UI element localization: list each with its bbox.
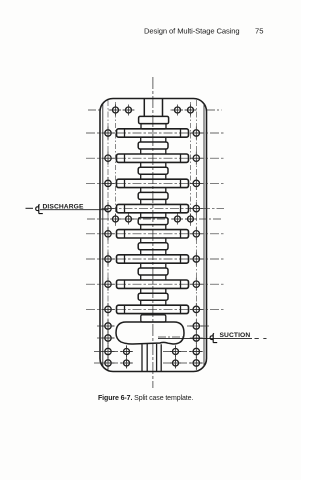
stage row 1 centerline [86,132,224,134]
casing bolt left row y=234 [102,227,115,240]
stage row 7 centerline [86,283,224,285]
inner stud column centerline left [115,102,117,227]
casing bolt right row y=259 [190,253,203,266]
right inner casing line [203,103,205,367]
shaft lines below suction eye [142,344,161,371]
stage row 8 centerline [86,308,224,310]
shaft vertical centerline [152,77,154,388]
casing bolt left row y=133 [102,127,115,140]
casing bolt left row y=326 [102,320,115,333]
left bolt column centerline [107,100,109,370]
casing bolt right row y=209 [190,202,203,215]
casing bolt left row y=309 [102,303,115,316]
interstage sleeve stubs lower 7 [141,300,166,305]
top stud row centerline [88,109,222,111]
casing bolt right row y=363 [190,357,203,370]
gland flange [139,116,169,123]
discharge centerline symbol [36,204,43,213]
stud mid row x=116 [110,214,121,225]
stud top row x=190 [185,105,196,116]
stud top row x=116 [110,105,121,116]
inner stud column centerline right [190,102,192,227]
stud mid row x=190 [185,214,196,225]
svg-text:75: 75 [255,27,263,36]
casing bolt left row y=363 [102,357,115,370]
discharge leader line [40,209,108,211]
interstage sleeve stubs lower 2 [141,174,166,179]
cluster bolt right y=352 [170,346,181,357]
interstage sleeve block 6 [138,268,168,275]
cluster bolt right y=363 [170,358,181,369]
suction trailing dashes [255,337,267,339]
discharge leader dash [26,207,34,209]
impeller bar stage 3 [117,179,189,187]
lower shaft sleeve block [141,315,166,322]
bottom cluster centerline left [126,345,128,369]
casing bolt left row y=209 [102,202,115,215]
suction leader line [158,337,252,339]
stage row 5 centerline [86,233,224,235]
casing bolt right row y=234 [190,227,203,240]
gland follower block [141,124,166,129]
interstage sleeve block 2 [138,167,168,174]
impeller bar stage 4 [117,204,189,212]
svg-text:DISCHARGE: DISCHARGE [43,203,84,210]
stage row 2 centerline [86,157,224,159]
bottom row 326 centerline [97,325,210,327]
interstage sleeve block 4 [138,218,168,225]
stage row 4 centerline (discharge row) [108,208,224,210]
interstage sleeve stubs lower 3 [141,199,166,204]
casing bolt right row y=133 [190,127,203,140]
casing bolt right row y=338 [190,332,203,345]
casing bolt right row y=158 [190,152,203,165]
stud top row x=128 [123,105,134,116]
interstage sleeve stubs lower 1 [141,149,166,154]
casing bolt left row y=352 [102,345,115,358]
suction centerline symbol [210,333,217,342]
bottom row 351.5 centerline [94,351,205,353]
mid stud row centerline [87,218,222,220]
impeller bar stage 7 [117,280,189,288]
interstage sleeve stubs upper 5 [141,238,166,243]
bottom row 338 centerline left stub [97,337,115,339]
cluster bolt left y=363 [121,358,132,369]
impeller bar stage 2 [117,154,189,162]
interstage sleeve stubs upper 3 [141,188,166,193]
casing bolt right row y=284 [190,278,203,291]
interstage sleeve stubs upper 2 [141,162,166,167]
interstage sleeve stubs lower 4 [141,225,166,230]
stud top row x=178 [172,105,183,116]
suction centerline inside eye [158,336,184,338]
suction passage outline [116,322,184,344]
casing outline (rounded rectangle) [100,99,207,372]
interstage sleeve stubs lower 6 [141,275,166,280]
interstage sleeve stubs upper 7 [141,288,166,293]
interstage sleeve block 5 [138,243,168,250]
svg-text:SUCTION: SUCTION [220,332,251,339]
svg-text:Design of Multi-Stage Casing: Design of Multi-Stage Casing [144,27,240,36]
impeller bar stage 5 [117,230,189,238]
impeller bar stage 1 [117,129,189,137]
bottom row 363 centerline [94,362,205,364]
interstage sleeve stubs upper 6 [141,263,166,268]
interstage sleeve stubs lower 5 [141,250,166,255]
casing bolt left row y=284 [102,278,115,291]
impeller bar stage 6 [117,255,189,263]
stuffing box (top shaft sleeve) [144,99,162,116]
stage row 6 centerline [86,258,224,260]
svg-text:Figure 6-7. Split case templat: Figure 6-7. Split case template. [98,395,193,402]
impeller bar stage 8 [117,305,189,313]
interstage sleeve stubs upper 1 [141,137,166,142]
interstage sleeve block 7 [138,293,168,300]
left inner casing line [102,103,104,367]
bottom cluster centerline right [175,345,177,369]
casing bolt right row y=352 [190,345,203,358]
interstage sleeve block 3 [138,192,168,199]
casing bolt left row y=338 [102,332,115,345]
casing bolt right row y=183 [190,177,203,190]
casing bolt left row y=183 [102,177,115,190]
cluster bolt left y=352 [121,346,132,357]
stud mid row x=178 [172,214,183,225]
interstage sleeve stubs upper 4 [141,213,166,218]
casing bolt left row y=259 [102,253,115,266]
casing bolt right row y=309 [190,303,203,316]
casing bolt left row y=158 [102,152,115,165]
stage row 3 centerline [86,182,224,184]
casing bolt right row y=326 [190,320,203,333]
stud mid row x=128 [123,214,134,225]
interstage sleeve block 1 [138,142,168,149]
right bolt column centerline [195,100,197,370]
